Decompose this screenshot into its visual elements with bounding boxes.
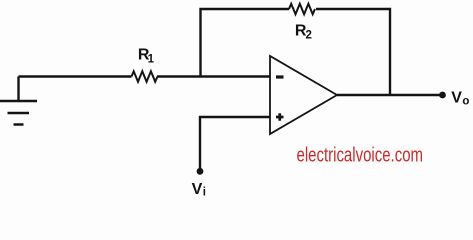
ground vertical stem (17, 77, 19, 102)
wire feedback loop left vertical + top left segment (201, 9, 290, 77)
wire output from op-amp tip to Vo terminal (337, 94, 443, 96)
node Vi terminal dot (197, 168, 204, 175)
svg-text:electricalvoice.com: electricalvoice.com (297, 144, 424, 166)
wire feedback top right segment + right vertical to output node (316, 9, 390, 95)
resistor R1 (132, 71, 158, 81)
resistor R2 (289, 4, 315, 14)
node Vo terminal dot (439, 92, 446, 99)
plus sign (non-inverting input) (276, 113, 284, 121)
ground (0, 101, 37, 125)
minus sign (inverting input) (276, 75, 284, 78)
wire Vi vertical and to non-inverting input (200, 117, 270, 170)
wire R1 to inverting input (157, 75, 270, 77)
op-amp U1 (270, 56, 337, 134)
wire input from ground corner to R1 (19, 75, 132, 77)
